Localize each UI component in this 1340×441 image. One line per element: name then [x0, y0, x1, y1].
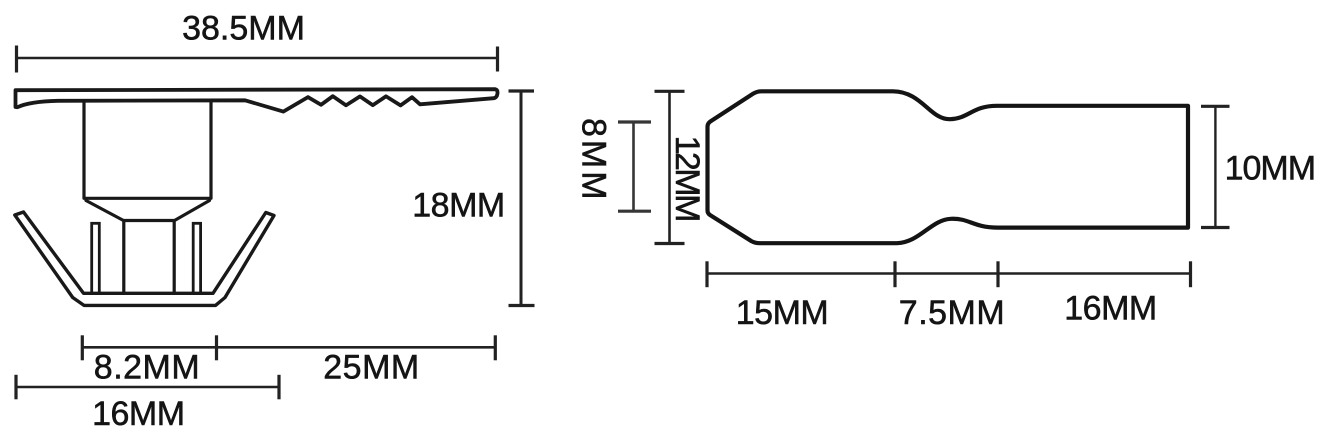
side view: right prong [193, 223, 200, 293]
svg-text:18MM: 18MM [412, 187, 504, 225]
svg-text:16MM: 16MM [92, 395, 184, 433]
dim 8.2MM / 25MM line [82, 335, 495, 360]
dim 38.5MM line [17, 46, 498, 73]
side view: stem [84, 102, 211, 294]
svg-text:8MM: 8MM [575, 118, 613, 203]
svg-text:25MM: 25MM [323, 348, 419, 386]
dim 12MM line [655, 91, 685, 243]
dim 16MM line (side view) [16, 375, 279, 400]
svg-text:16MM: 16MM [1064, 290, 1156, 328]
side view: wing cradle [15, 212, 274, 305]
side view: left prong [92, 223, 100, 293]
svg-text:8.2MM: 8.2MM [94, 349, 200, 387]
svg-text:12MM: 12MM [668, 135, 706, 220]
top view: clip outline [708, 91, 1189, 243]
svg-text:7.5MM: 7.5MM [899, 294, 1005, 332]
dim 15MM / 7.5MM / 16MM line [707, 261, 1191, 287]
dim 18MM line [509, 91, 535, 306]
svg-text:15MM: 15MM [736, 294, 828, 332]
dim 8MM line [618, 122, 651, 211]
svg-text:10MM: 10MM [1225, 149, 1315, 187]
svg-text:38.5MM: 38.5MM [182, 10, 305, 48]
side view: clip top bar with serrated edge [16, 89, 498, 111]
dim 10MM line [1201, 106, 1230, 227]
